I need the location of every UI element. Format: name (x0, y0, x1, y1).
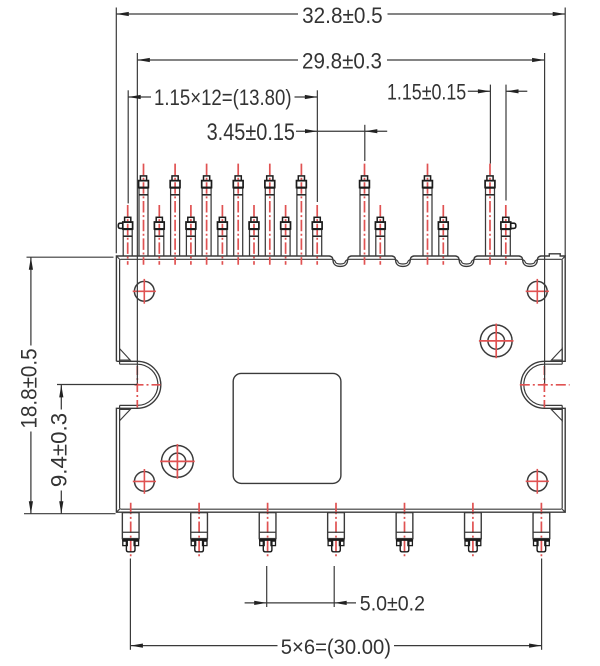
top pin 15 (short) (375, 205, 385, 265)
svg-text:5.0±0.2: 5.0±0.2 (360, 592, 425, 616)
module body inner contour bottom edge (121, 508, 562, 510)
extension line 1.15 right (505, 85, 507, 201)
svg-text:32.8±0.5: 32.8±0.5 (302, 3, 383, 28)
extension line top of body (18.8) (27, 256, 114, 258)
top pin 11 (short) (281, 205, 291, 265)
corner chamfers (117, 256, 121, 260)
top pin 5 (short) (186, 205, 196, 265)
top pin 19 (short) (501, 205, 516, 265)
bottom pin 1 (122, 503, 139, 559)
extension line 30.00 left (129, 559, 131, 650)
svg-text:1.15×12=(13.80): 1.15×12=(13.80) (154, 85, 292, 110)
svg-text:29.8±0.3: 29.8±0.3 (302, 49, 382, 74)
dimension 3.45±0.15 (296, 130, 387, 132)
bottom pin 6 (464, 503, 481, 559)
alignment hole left (double circle) (160, 444, 195, 479)
top pin 12 (tall) (297, 164, 307, 265)
bottom pin 2 (191, 503, 208, 559)
top pin 18 (tall) (485, 164, 495, 265)
mounting hole bottom-left (133, 469, 156, 494)
top pin 3 (short) (154, 205, 164, 265)
svg-text:18.8±0.5: 18.8±0.5 (16, 348, 41, 428)
alignment hole right (double circle) (479, 324, 514, 359)
svg-text:5×6=(30.00): 5×6=(30.00) (281, 636, 391, 659)
extension line 1.15 left (489, 85, 491, 164)
extension line notch center (9.4) (57, 384, 137, 386)
extension line bottom of body (24, 513, 116, 515)
svg-text:3.45±0.15: 3.45±0.15 (207, 119, 295, 146)
right side notch centerlines (520, 384, 570, 386)
bottom pin 3 (259, 503, 276, 559)
dimension 5.0±0.2 (245, 602, 356, 604)
dimension 18.8±0.5 (vertical) (30, 257, 32, 345)
right side notch inner contour (524, 364, 562, 405)
right notch gusset triangles (551, 349, 562, 361)
top pin 8 (tall) (233, 164, 243, 265)
bottom pin 7 (533, 503, 550, 559)
central rounded square recess (233, 373, 341, 483)
extension line 32.8 left (115, 8, 117, 254)
module body inner contour top edge (121, 259, 562, 264)
bottom pin 4 (327, 503, 344, 559)
mounting hole bottom-right (526, 469, 549, 494)
extension line 29.8 left (136, 53, 138, 383)
top pin 2 (tall) (139, 164, 149, 265)
extension line 1.15x12 left (127, 90, 129, 203)
extension line 5.0 left (266, 566, 268, 607)
left side notch inner contour (120, 364, 158, 405)
left side notch centerlines (135, 384, 162, 386)
extension line 30.00 right (541, 559, 543, 650)
svg-text:1.15±0.15: 1.15±0.15 (387, 80, 466, 105)
left notch gusset triangles (120, 349, 131, 361)
top pin 4 (tall) (170, 164, 180, 265)
extension line 1.15x12 / 3.45 shared (316, 90, 318, 202)
top pin 9 (short) (249, 205, 259, 265)
extension line 5.0 right (333, 566, 335, 607)
top pin 1 (short) (118, 205, 132, 265)
dimension 1.15×12=(13.80) (128, 96, 151, 98)
module body outer contour (116, 254, 565, 512)
dimension 1.15±0.15 (468, 90, 491, 92)
dimension 32.8±0.5 (116, 13, 298, 15)
bottom pin 5 (396, 503, 413, 559)
top pin 7 (short) (218, 205, 228, 265)
dimension 9.4±0.3 (vertical) (60, 385, 62, 410)
extension line 32.8 right (564, 8, 566, 257)
top pin 10 (tall) (265, 164, 275, 265)
top pin 17 (short) (438, 205, 448, 265)
top pin 13 (short) (312, 205, 322, 265)
top pin 6 (tall) (202, 164, 212, 265)
mounting hole top-right (526, 279, 549, 304)
module body inner contour left edge (119, 260, 121, 364)
svg-text:9.4±0.3: 9.4±0.3 (47, 413, 72, 487)
dimension 5×6=(30.00) (130, 645, 277, 647)
top pin 14 (tall) (360, 164, 370, 265)
dimension 29.8±0.3 (137, 59, 298, 61)
extension line 3.45 right (364, 125, 366, 161)
module body inner contour right edge (561, 260, 563, 364)
extension line 29.8 right (544, 53, 546, 383)
top pin 16 (tall) (423, 164, 433, 265)
mounting hole top-left (133, 279, 156, 304)
